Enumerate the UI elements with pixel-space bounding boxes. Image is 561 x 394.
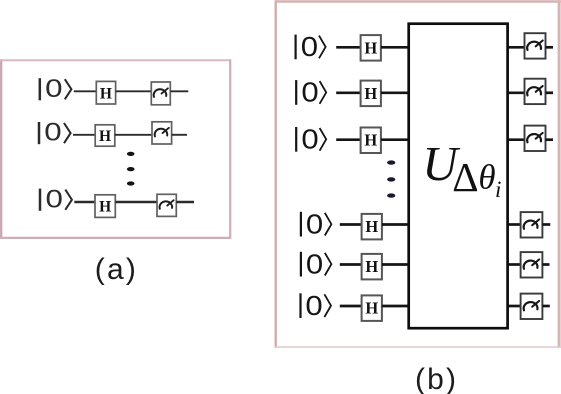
svg-text:0: 0: [301, 77, 318, 108]
measurement gate (b) row 1: [525, 33, 546, 58]
wire (a) row 1 segment 1: [74, 90, 98, 92]
measurement gate (b) row 3: [525, 126, 546, 151]
H gate (b) row 6: [362, 295, 382, 321]
qubit label |0> (b) row 1: [296, 31, 326, 62]
svg-text:0: 0: [45, 75, 62, 103]
svg-text:H: H: [364, 38, 377, 57]
svg-text:θ: θ: [478, 157, 495, 196]
wire (b) row 6 segment 2 (into U box): [382, 305, 410, 308]
wire (a) row 3 segment 2: [115, 201, 158, 203]
H gate (b) row 3: [361, 128, 381, 154]
qubit label |0> (b) row 2: [296, 77, 326, 108]
svg-text:Δ: Δ: [452, 154, 478, 200]
H gate (a) row 3: [95, 195, 115, 218]
svg-text:H: H: [99, 199, 111, 216]
H gate (b) row 2: [361, 81, 381, 107]
wire (b) row 6 segment 1: [340, 305, 363, 308]
wire (a) row 1 segment 2: [116, 90, 153, 92]
wire (b) row 2 segment 1: [336, 91, 361, 94]
qubit label |0> (b) row 3: [296, 124, 326, 155]
H gate (b) row 1: [361, 35, 381, 61]
H gate (b) row 4: [362, 214, 382, 240]
measurement gate (b) row 2: [525, 79, 546, 104]
svg-text:H: H: [100, 85, 112, 102]
measurement gate (b) row 5: [521, 252, 543, 277]
wire (a) row 2 segment 3: [172, 134, 187, 136]
measurement gate (b) row 4: [521, 212, 543, 237]
svg-text:(a): (a): [95, 253, 138, 286]
label U_{Delta theta_i}: [422, 136, 501, 202]
H gate (a) row 1: [96, 81, 115, 104]
wire (b) row 3 segment 2 (into U box): [381, 138, 410, 141]
wire (b) row 3 segment 1: [336, 138, 361, 141]
wire (b) row 4 stub after meter: [542, 223, 550, 226]
svg-text:H: H: [365, 217, 378, 236]
svg-text:0: 0: [306, 248, 323, 279]
wire (b) row 6 stub after meter: [542, 305, 549, 308]
wire (b) row 5 segment 1: [340, 263, 363, 266]
svg-text:H: H: [364, 84, 377, 103]
vertical dots (a) between rows 2 and 3: [127, 152, 135, 186]
qubit label |0> (b) row 6: [301, 290, 332, 321]
wire (a) row 2 segment 1: [73, 134, 96, 136]
wire (a) row 3 segment 1: [74, 201, 96, 203]
qubit label |0> (b) row 4: [301, 208, 332, 239]
H gate (a) row 2: [95, 125, 115, 146]
frame of subfigure (a): [0, 59, 230, 238]
svg-text:0: 0: [301, 31, 318, 62]
wire (b) row 2 segment 3 (U box to meter): [506, 91, 525, 94]
wire (b) row 5 stub after meter: [542, 263, 549, 266]
svg-text:H: H: [99, 128, 111, 145]
qubit label |0> (a) row 2: [39, 119, 71, 147]
svg-text:(b): (b): [415, 363, 458, 394]
svg-text:0: 0: [46, 185, 63, 213]
unitary box U_dtheta_i (b): [409, 24, 508, 329]
svg-text:0: 0: [305, 290, 322, 321]
qubit label |0> (a) row 1: [40, 75, 72, 103]
wire (a) row 3 segment 3: [176, 201, 194, 203]
wire (b) row 2 segment 2 (into U box): [381, 91, 410, 94]
wire (b) row 3 stub after meter: [546, 138, 554, 141]
vertical dots (b) between rows 3 and 4: [387, 160, 395, 197]
wire (a) row 2 segment 2: [115, 134, 153, 136]
wire (b) row 4 segment 3 (U box to meter): [506, 223, 521, 226]
caption (a): [95, 253, 138, 286]
measurement gate (a) row 3: [157, 194, 176, 216]
svg-text:0: 0: [306, 208, 323, 239]
svg-text:0: 0: [301, 124, 318, 155]
wire (b) row 4 segment 1: [340, 223, 363, 226]
wire (b) row 5 segment 3 (U box to meter): [506, 263, 521, 266]
wire (b) row 1 segment 2 (into U box): [381, 46, 410, 49]
H gate (b) row 5: [362, 254, 382, 280]
svg-text:i: i: [495, 177, 501, 202]
frame of subfigure (b): [275, 0, 561, 348]
wire (b) row 4 segment 2 (into U box): [382, 223, 410, 226]
measurement gate (a) row 1: [151, 82, 170, 105]
qubit label |0> (a) row 3: [40, 185, 72, 213]
wire (b) row 1 segment 3 (U box to meter): [506, 46, 525, 49]
qubit label |0> (b) row 5: [301, 248, 332, 279]
measurement gate (b) row 6: [521, 294, 543, 319]
svg-text:H: H: [365, 257, 378, 276]
wire (b) row 6 segment 3 (U box to meter): [506, 305, 521, 308]
wire (a) row 1 segment 3: [170, 90, 188, 92]
wire (b) row 1 segment 1: [336, 46, 361, 49]
svg-text:H: H: [365, 299, 378, 318]
measurement gate (a) row 2: [152, 122, 172, 144]
wire (b) row 2 stub after meter: [546, 91, 554, 94]
wire (b) row 1 stub after meter: [546, 46, 554, 49]
caption (b): [415, 363, 458, 394]
wire (b) row 5 segment 2 (into U box): [382, 263, 410, 266]
svg-text:0: 0: [44, 119, 61, 147]
svg-text:H: H: [364, 131, 377, 150]
wire (b) row 3 segment 3 (U box to meter): [506, 138, 525, 141]
